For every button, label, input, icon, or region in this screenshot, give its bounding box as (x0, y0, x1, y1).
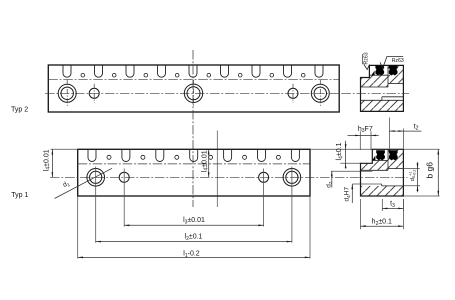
Typ 2 slot depth line (48, 79, 339, 81)
svg-text:b g6: b g6 (424, 162, 434, 179)
Typ 2 slot at x=256 (252, 65, 260, 77)
Typ 1 vent hole at x=176.8 (175, 155, 179, 159)
dimension l3 (124, 217, 263, 226)
Typ 1 hole at x=124.2 (119, 172, 129, 182)
Typ 2 slot at x=67 (63, 65, 71, 77)
dimension t2 (389, 118, 421, 149)
Typ 1 slot at x=92 (88, 149, 96, 161)
dimension h3F7 (348, 126, 379, 150)
Typ 2 slot at x=130 (126, 65, 134, 77)
Typ 2 vent hole at x=177.2 (175, 73, 179, 77)
Typ 1 slot at x=295.4 (291, 149, 299, 161)
Typ 1 vent hole at x=244.6 (243, 155, 247, 159)
Typ 1 hole at x=263.6 (259, 172, 269, 182)
Typ 2 slot at x=98.5 (95, 65, 103, 77)
Typ 2 slot at x=161.5 (158, 65, 166, 77)
Typ 2 slot at x=224.5 (221, 65, 229, 77)
Typ 2 vent hole at x=271.8 (270, 73, 274, 77)
Typ 1 vent hole at x=142.9 (141, 155, 145, 159)
Typ 2 vent hole at x=82.8 (81, 73, 85, 77)
Typ 1 hole at x=291.9 (283, 169, 301, 187)
extension line left edge (77, 196, 79, 259)
Typ 2 slot at x=193 (189, 65, 197, 77)
Typ 2 vent hole at x=303.2 (301, 73, 305, 77)
Typ 2 slot at x=319 (315, 65, 323, 77)
Typ 1 slot depth line (78, 163, 310, 165)
section A seal 2 (389, 65, 398, 75)
svg-text:Typ 2: Typ 2 (11, 107, 28, 114)
Typ 2 vent hole at x=114.2 (112, 73, 116, 77)
Typ 2 vent hole at x=208.8 (207, 73, 211, 77)
svg-text:Rz63: Rz63 (392, 58, 404, 64)
Typ 1 vent hole at x=109.0 (107, 155, 111, 159)
section A half-seal triangle (371, 71, 374, 76)
Typ 2 view outline (48, 65, 339, 112)
extension line hole 124.2 (123, 169, 125, 227)
extension line hole 291.9 (291, 167, 293, 243)
Typ 2 vent hole at x=240.2 (238, 73, 242, 77)
dimension l4 left (43, 149, 77, 177)
section A internal lines (361, 65, 404, 100)
Typ 1 slot at x=227.6 (224, 149, 232, 161)
Typ 1 vent hole at x=278.4 (276, 155, 280, 159)
Typ 1 view outline (78, 149, 310, 196)
section B hatch regions (361, 149, 404, 196)
top edge extension line to section (310, 148, 440, 150)
svg-text:-0.2: -0.2 (413, 169, 417, 176)
section B internal lines (361, 149, 404, 186)
section B seal 1 (376, 150, 385, 160)
vertical section centerline through both views (192, 50, 194, 207)
Typ 1 vent hole at x=210.6 (209, 155, 213, 159)
Typ 2 hole at x=67.2 (58, 80, 76, 107)
dimension b g6 (403, 149, 439, 196)
Typ 2 main centerline (45, 92, 343, 94)
d1 leader line (55, 168, 113, 198)
dimension t3 (382, 199, 403, 211)
section A hatch regions (361, 65, 404, 111)
extension line hole 263.6 (263, 169, 265, 227)
svg-text:Typ 1: Typ 1 (11, 192, 28, 199)
Typ 2 hole at x=293.0 (288, 84, 298, 103)
dimension l4 right (0.1) (336, 141, 361, 169)
section B outline (Typ 1 cross-section) (361, 149, 404, 196)
Typ 1 slot at x=125.9 (122, 149, 130, 161)
Typ 2 hole at x=320.3 (311, 80, 329, 107)
Typ 2 hole at x=94.2 (89, 84, 99, 103)
dimension l4 middle (201, 149, 209, 177)
surface mark Rz63 horizontal (380, 57, 404, 69)
section A outline (Typ 2 cross-section) (361, 65, 404, 111)
section A centerline (342, 92, 410, 94)
Typ 1 slot at x=261.5 (258, 149, 266, 161)
Typ 1 slot at x=193.7 (190, 149, 198, 161)
dimension d4H7 (344, 184, 382, 203)
Typ 2 slot at x=287.5 (284, 65, 292, 77)
Typ 2 hole at x=193.5 (184, 80, 202, 107)
extension line hole 95.7 (95, 167, 97, 243)
section A seal 1 (375, 65, 384, 75)
dimension l1 (78, 250, 310, 258)
Typ 1 hole at x=95.7 (87, 169, 105, 187)
label d1 (62, 180, 72, 190)
section B half-seal triangle (372, 156, 375, 161)
svg-text:Rz63: Rz63 (364, 52, 370, 64)
Typ 2 vent hole at x=145.8 (144, 73, 148, 77)
dimension h2 (361, 199, 404, 229)
surface mark Rz63 rotated (363, 52, 370, 69)
dimension d2 (326, 171, 373, 188)
Typ 1 slot at x=159.8 (156, 149, 164, 161)
dimension d5 (403, 162, 420, 192)
dimension l2 (96, 233, 292, 242)
Typ 1 main centerline (50, 176, 408, 178)
extension line right edge (309, 196, 311, 259)
vertical reference line x=217 (216, 131, 218, 208)
section B seal 2 (389, 150, 398, 160)
